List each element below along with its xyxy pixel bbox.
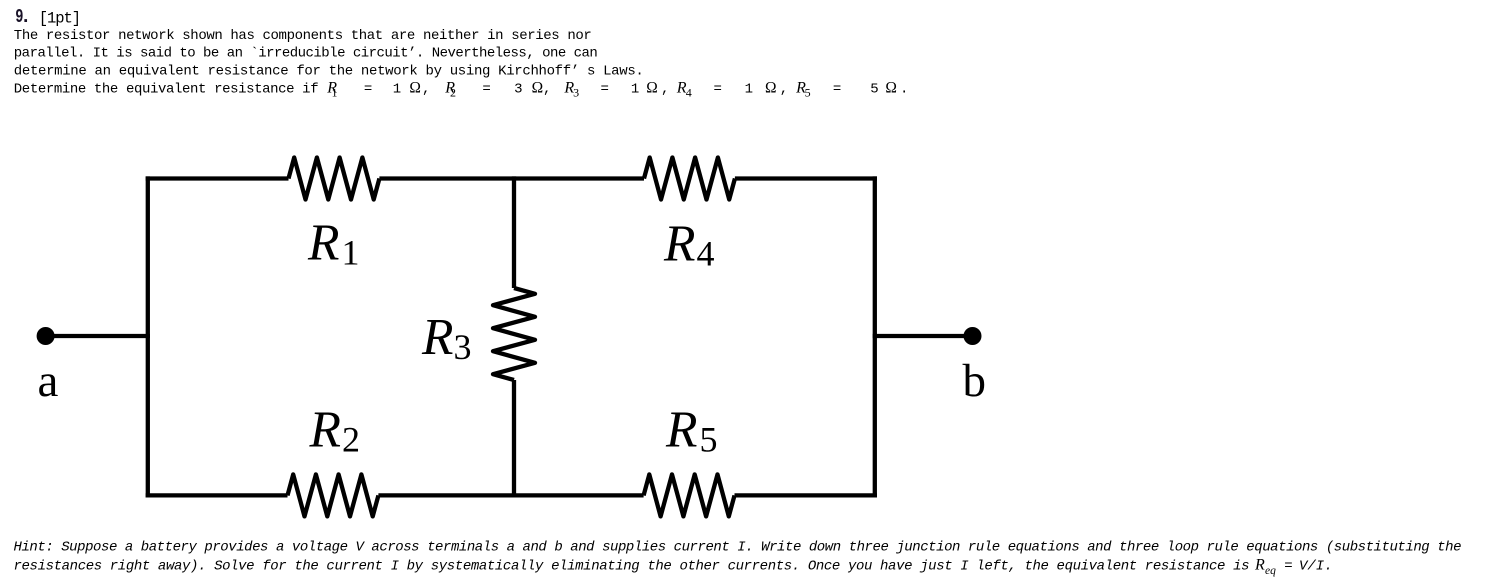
svg-text:4: 4 — [697, 233, 715, 273]
terminal dot b — [964, 327, 982, 345]
svg-text:determine an equivalent resist: determine an equivalent resistance for t… — [14, 63, 644, 79]
wire R4 to right rail — [735, 176, 877, 180]
svg-text:Ω: Ω — [532, 79, 544, 96]
svg-text:4: 4 — [686, 86, 692, 100]
wire a to left rail — [46, 334, 150, 338]
wire middle vertical bottom — [512, 380, 516, 498]
svg-text:Hint: Suppose a battery provid: Hint: Suppose a battery provides a volta… — [14, 540, 1462, 556]
resistor R1 — [289, 158, 380, 200]
svg-text:,: , — [543, 81, 551, 97]
wire middle bottom node to R5 — [514, 493, 644, 497]
svg-text:R: R — [307, 215, 339, 272]
svg-text:.: . — [20, 6, 31, 28]
wire middle vertical top — [512, 176, 516, 288]
svg-text:1: 1 — [393, 81, 401, 97]
svg-text:V/I.: V/I. — [1299, 559, 1333, 575]
terminal dot a — [37, 327, 55, 345]
svg-text:5: 5 — [870, 81, 878, 97]
svg-text:=: = — [482, 81, 490, 97]
svg-text:2: 2 — [342, 420, 360, 460]
svg-text:=: = — [601, 81, 609, 97]
svg-text:,: , — [661, 81, 669, 97]
svg-text:Ω: Ω — [646, 79, 658, 96]
svg-text:5: 5 — [700, 420, 718, 460]
wire top left segment — [146, 176, 289, 180]
right rail wire — [873, 176, 877, 497]
svg-text:a: a — [38, 355, 59, 407]
svg-text:Determine the equivalent resis: Determine the equivalent resistance if — [14, 81, 319, 97]
svg-text:=: = — [833, 81, 841, 97]
wire R5 to right rail — [735, 493, 878, 497]
wire middle node to R4 — [514, 176, 644, 180]
svg-text:[1pt]: [1pt] — [39, 9, 80, 27]
svg-text:1: 1 — [745, 81, 753, 97]
svg-text:Ω: Ω — [765, 79, 777, 96]
svg-text:Ω: Ω — [885, 79, 897, 96]
svg-text:resistances right away). Solv: resistances right away). Solve for the c… — [14, 559, 1250, 575]
svg-text:R: R — [421, 309, 453, 366]
svg-text:eq: eq — [1265, 565, 1276, 577]
svg-text:3: 3 — [514, 81, 522, 97]
wire R1 to middle node — [379, 176, 514, 180]
svg-text:R: R — [665, 402, 697, 459]
svg-text:=: = — [364, 81, 372, 97]
resistor R3 — [493, 288, 535, 380]
svg-text:3: 3 — [573, 86, 579, 100]
svg-text:=: = — [1284, 559, 1292, 575]
svg-text:1: 1 — [631, 81, 639, 97]
wire R2 to middle bottom node — [378, 493, 514, 497]
svg-text:2: 2 — [450, 86, 456, 100]
svg-text:.: . — [900, 81, 908, 97]
svg-text:1: 1 — [342, 233, 360, 273]
svg-text:,: , — [780, 81, 788, 97]
resistor R2 — [288, 474, 379, 516]
svg-text:R: R — [663, 216, 695, 273]
svg-text:3: 3 — [454, 327, 472, 367]
svg-text:,: , — [422, 81, 430, 97]
svg-text:=: = — [714, 81, 722, 97]
wire right rail to b — [873, 334, 973, 338]
svg-text:b: b — [963, 355, 987, 407]
left rail wire — [146, 176, 150, 497]
svg-text:parallel. It is said to be an: parallel. It is said to be an `irreducib… — [14, 46, 598, 62]
resistor R5 — [644, 474, 735, 516]
svg-text:R: R — [1254, 557, 1265, 574]
svg-text:Ω: Ω — [409, 79, 421, 96]
svg-text:5: 5 — [805, 86, 811, 100]
svg-text:1: 1 — [332, 86, 338, 100]
wire bottom left segment — [146, 493, 288, 497]
resistor R4 — [644, 158, 735, 200]
svg-text:R: R — [309, 402, 341, 459]
svg-text:The resistor network shown has: The resistor network shown has component… — [14, 28, 592, 44]
